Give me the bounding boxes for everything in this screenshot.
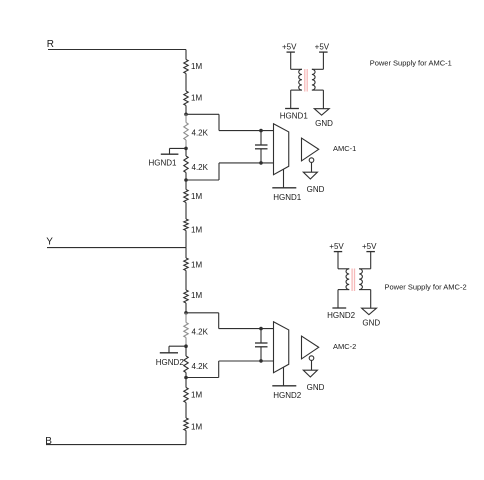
- wire T2 secondary to GND: [359, 290, 371, 309]
- power +5V left bar (PS1): [287, 51, 295, 53]
- node B: [184, 178, 188, 182]
- wire Y input: [47, 247, 186, 249]
- label HGND2 (PS2): [327, 311, 356, 320]
- svg-text:1M: 1M: [191, 261, 202, 270]
- wire +5V left to T2 primary: [338, 252, 349, 269]
- label Y: [46, 237, 53, 248]
- wire R11-R12: [185, 403, 187, 419]
- wire T1 secondary to GND: [312, 90, 324, 109]
- label R8 1M: [191, 291, 202, 300]
- label HGND2 (chain): [156, 358, 185, 367]
- label R3 4.2K: [192, 129, 209, 138]
- label B: [45, 436, 52, 447]
- svg-text:1M: 1M: [191, 225, 202, 234]
- label HGND1 (AMC-1): [273, 193, 302, 202]
- resistor R12 1M: [184, 418, 188, 431]
- label AMC-2: [333, 342, 356, 351]
- svg-text:+5V: +5V: [282, 42, 297, 51]
- wire R input: [48, 49, 186, 51]
- ground HGND2 (PS2): [332, 307, 346, 309]
- resistor R8 1M: [184, 290, 188, 303]
- ground HGND1 (AMC-1): [272, 187, 296, 189]
- svg-text:+5V: +5V: [329, 242, 344, 251]
- transformer T2 core: [352, 269, 354, 292]
- wire T1 primary to HGND1: [291, 90, 302, 108]
- wire nodeA to AMC-1 in+: [186, 114, 274, 130]
- power +5V right bar (PS2): [366, 251, 375, 253]
- svg-text:HGND1: HGND1: [273, 193, 302, 202]
- svg-text:AMC-2: AMC-2: [333, 342, 356, 351]
- svg-text:HGND2: HGND2: [156, 358, 185, 367]
- wire nodeA-R3 (gray): [185, 114, 187, 122]
- svg-text:1M: 1M: [191, 62, 202, 71]
- node A: [184, 113, 188, 117]
- capacitor C2 bottom lead: [260, 347, 262, 361]
- node AMC-2 in- junction: [259, 359, 263, 363]
- node C: [184, 311, 188, 315]
- svg-text:1M: 1M: [191, 291, 202, 300]
- node R corner: [185, 50, 187, 60]
- label GND (PS1): [315, 119, 333, 128]
- svg-text:AMC-1: AMC-1: [333, 144, 356, 153]
- svg-text:Y: Y: [46, 237, 53, 248]
- ground HGND2 (AMC-2): [272, 385, 296, 387]
- label GND (PS2): [362, 318, 380, 327]
- ground HGND1 (PS1): [285, 108, 299, 110]
- ground GND (AMC-2): [303, 370, 317, 377]
- svg-text:Power Supply for AMC-2: Power Supply for AMC-2: [385, 283, 467, 292]
- wire HGND2 node-R10: [185, 346, 187, 356]
- resistor R6 1M: [184, 219, 188, 231]
- ground HGND2 (chain): [160, 346, 186, 353]
- wire nodeC to AMC-2 in+: [186, 313, 274, 329]
- transformer T2 secondary winding: [359, 269, 362, 290]
- wire T2 primary to HGND2: [338, 290, 349, 308]
- svg-text:HGND2: HGND2: [327, 311, 356, 320]
- wire U2 bubble to GND: [311, 360, 313, 370]
- label R: [47, 39, 54, 50]
- capacitor C1: [255, 145, 268, 149]
- power +5V left bar (PS2): [334, 251, 342, 253]
- ground HGND1 (chain): [161, 148, 186, 154]
- resistor R7 1M: [184, 258, 188, 271]
- label R5 1M: [191, 192, 202, 201]
- label R12 1M: [191, 422, 202, 431]
- wire R1-R2: [185, 74, 187, 92]
- wire R9-HGND2 node (gray): [185, 338, 187, 347]
- svg-text:1M: 1M: [191, 391, 202, 400]
- label Power Supply for AMC-1: [370, 58, 452, 67]
- power +5V right bar (PS1): [319, 51, 328, 53]
- svg-text:4.2K: 4.2K: [192, 362, 209, 371]
- label R4 4.2K: [192, 163, 209, 172]
- resistor R1 1M: [184, 60, 188, 74]
- ground GND (AMC-1): [303, 172, 317, 179]
- transformer T2 primary winding: [346, 269, 349, 290]
- label AMC-1: [333, 144, 356, 153]
- capacitor C2 top lead: [260, 329, 262, 343]
- svg-text:4.2K: 4.2K: [192, 328, 209, 337]
- resistor R11 1M: [184, 388, 188, 403]
- ground GND (PS1): [314, 109, 329, 116]
- svg-text:HGND1: HGND1: [280, 112, 309, 121]
- wire nodeC-R9 (gray): [185, 313, 187, 323]
- wire +5V right to T1 secondary: [312, 52, 324, 69]
- wire R7-R8: [185, 271, 187, 291]
- resistor R10 4.2K: [184, 356, 188, 373]
- label R7 1M: [191, 261, 202, 270]
- node AMC-1 in+ junction: [259, 129, 263, 133]
- node HGND2 junction: [184, 344, 188, 348]
- svg-text:Power Supply for AMC-1: Power Supply for AMC-1: [370, 58, 452, 67]
- wire U1 bubble to GND: [311, 162, 313, 172]
- label R10 4.2K: [192, 362, 209, 371]
- resistor R5 1M: [184, 190, 188, 203]
- resistor R4 4.2K: [184, 156, 188, 173]
- label HGND1 (PS1): [280, 112, 309, 121]
- resistor R2 1M: [184, 91, 188, 106]
- ground GND (PS2): [362, 308, 377, 315]
- node AMC-1 in- junction: [259, 161, 263, 165]
- svg-text:HGND2: HGND2: [273, 391, 302, 400]
- resistor R3 4.2K (gray): [184, 123, 188, 141]
- svg-text:4.2K: 4.2K: [192, 163, 209, 172]
- svg-text:1M: 1M: [191, 93, 202, 102]
- wire R5-R6: [185, 203, 187, 220]
- wire nodeB to AMC-1 in-: [186, 163, 274, 180]
- svg-text:GND: GND: [307, 185, 325, 194]
- transformer T1 core: [305, 69, 307, 92]
- label R2 1M: [191, 93, 202, 102]
- svg-text:B: B: [45, 436, 52, 447]
- svg-text:+5V: +5V: [362, 242, 377, 251]
- node AMC-2 in+ junction: [259, 327, 263, 331]
- svg-text:+5V: +5V: [315, 42, 330, 51]
- label HGND2 (AMC-2): [273, 391, 302, 400]
- wire R3-HGND1 node (gray): [185, 140, 187, 148]
- power +5V right (PS2): [362, 242, 377, 251]
- wire nodeD-R11: [185, 378, 187, 388]
- svg-text:GND: GND: [307, 383, 325, 392]
- transformer T1 primary winding: [299, 69, 302, 90]
- label Power Supply for AMC-2: [385, 283, 467, 292]
- op-amp U2 buffer (triangle): [302, 336, 319, 359]
- label R1 1M: [191, 62, 202, 71]
- power +5V left (PS1): [282, 42, 297, 51]
- node D: [184, 376, 188, 380]
- label R6 1M: [191, 225, 202, 234]
- op-amp U1 buffer (triangle): [302, 138, 319, 161]
- wire nodeB-R5: [185, 180, 187, 190]
- svg-text:1M: 1M: [191, 422, 202, 431]
- svg-text:HGND1: HGND1: [148, 158, 177, 167]
- svg-text:GND: GND: [315, 119, 333, 128]
- resistor R9 4.2K (gray): [184, 323, 188, 338]
- capacitor C1 bottom lead: [260, 149, 262, 163]
- label R11 1M: [191, 391, 202, 400]
- capacitor C1 top lead: [260, 131, 262, 145]
- power +5V right (PS1): [315, 42, 330, 51]
- pin bubble on U2: [309, 356, 314, 361]
- svg-text:GND: GND: [362, 318, 380, 327]
- wire B input: [46, 444, 186, 446]
- svg-text:R: R: [47, 39, 54, 50]
- wire nodeD to AMC-2 in-: [186, 361, 274, 378]
- svg-text:1M: 1M: [191, 192, 202, 201]
- label GND (AMC-2): [307, 383, 325, 392]
- wire R8-nodeC: [185, 303, 187, 313]
- transformer T1 secondary winding: [312, 69, 315, 90]
- label R9 4.2K: [192, 328, 209, 337]
- wire +5V left to T1 primary: [291, 52, 302, 69]
- wire U2 to HGND2: [283, 367, 285, 386]
- capacitor C2: [255, 343, 268, 347]
- wire R6-Y: [185, 231, 187, 248]
- svg-text:4.2K: 4.2K: [192, 129, 209, 138]
- wire +5V right to T2 secondary: [359, 252, 371, 269]
- wire R10-nodeD: [185, 373, 187, 378]
- wire HGND1 node-R4: [185, 148, 187, 156]
- op-amp U1 input stage (trapezoid): [274, 124, 289, 175]
- wire R4-nodeB: [185, 173, 187, 181]
- node HGND1 junction: [184, 147, 188, 151]
- wire R12-B: [185, 431, 187, 445]
- power +5V left (PS2): [329, 242, 344, 251]
- label GND (AMC-1): [307, 185, 325, 194]
- label HGND1 (chain): [148, 158, 177, 167]
- wire R2-nodeA: [185, 106, 187, 115]
- op-amp U2 input stage (trapezoid): [274, 322, 289, 373]
- wire Y-R7: [185, 248, 187, 258]
- wire U1 to HGND1: [283, 169, 285, 188]
- pin bubble on U1: [309, 158, 314, 163]
